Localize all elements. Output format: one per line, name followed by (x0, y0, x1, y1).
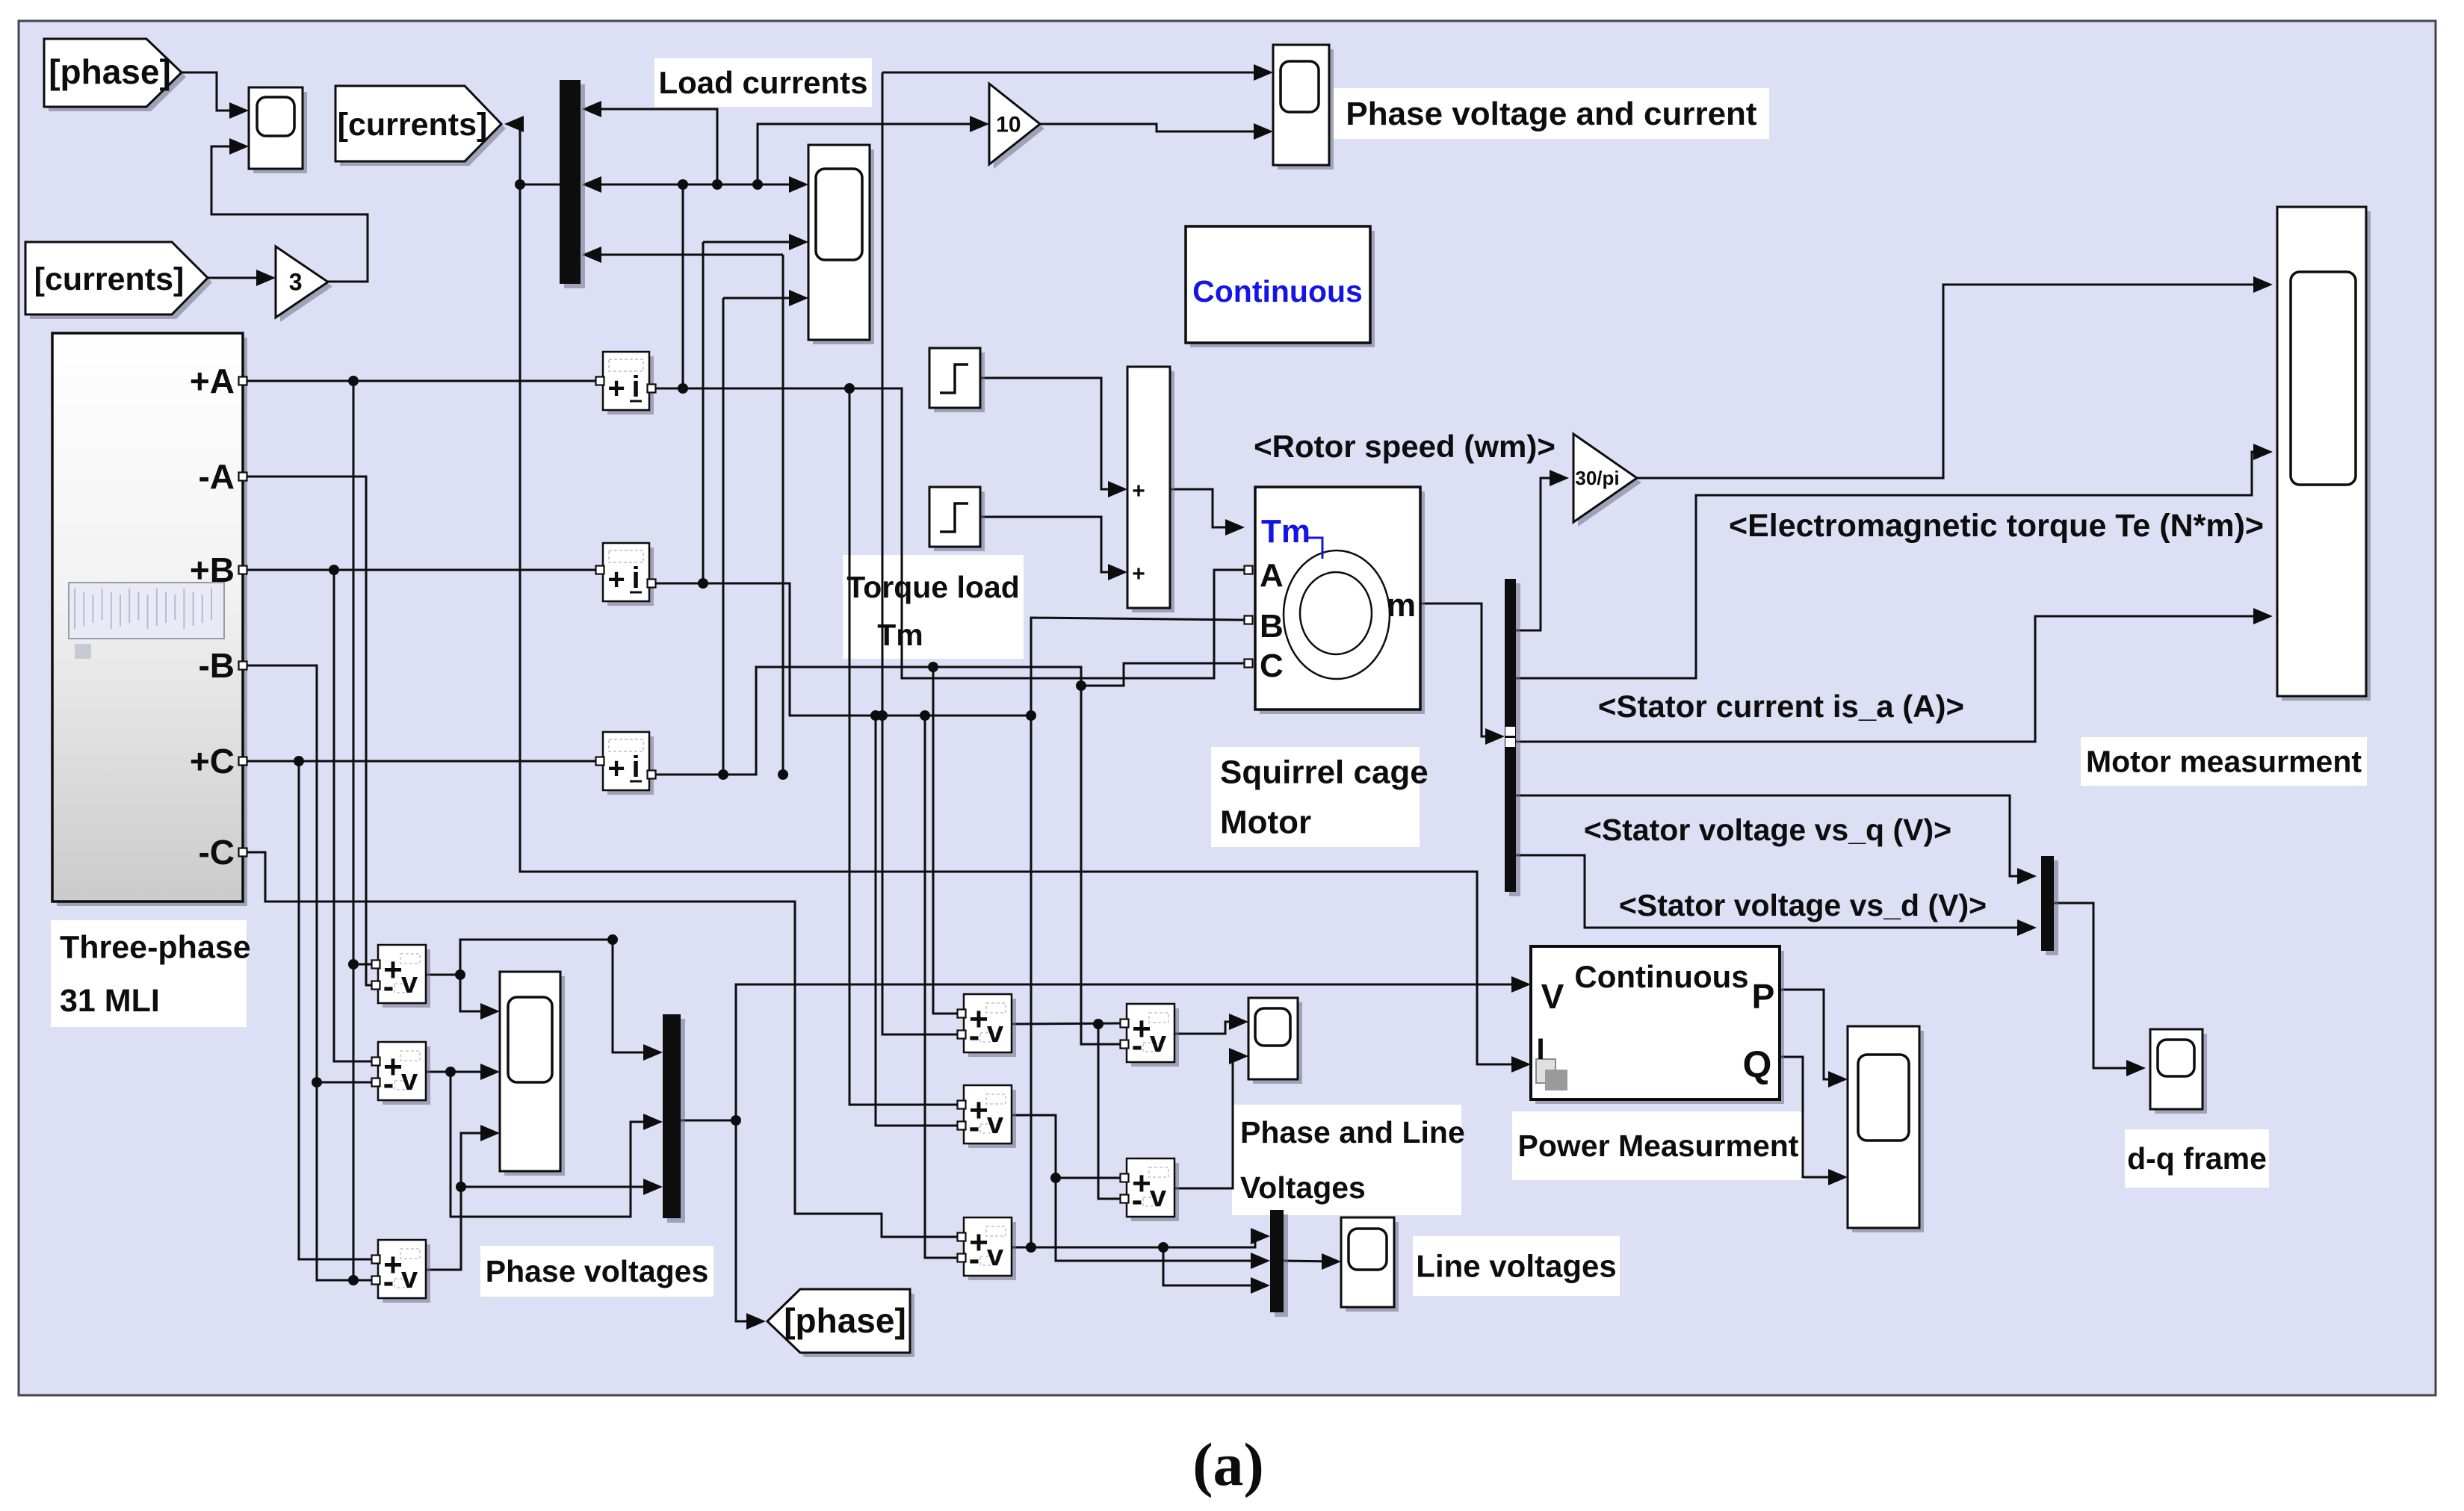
svg-text:<Stator voltage vs_q (V)>: <Stator voltage vs_q (V)> (1584, 813, 1951, 847)
svg-text:<Electromagnetic torque Te (N*: <Electromagnetic torque Te (N*m)> (1729, 508, 2264, 544)
svg-text:Q: Q (1743, 1043, 1772, 1085)
svg-text:-: - (383, 1263, 394, 1300)
svg-text:d-q frame: d-q frame (2127, 1141, 2267, 1176)
svg-text:Tm: Tm (1261, 513, 1310, 550)
svg-text:-A: -A (198, 457, 235, 496)
svg-text:[currents]: [currents] (338, 107, 488, 143)
svg-text:-: - (1132, 1182, 1143, 1218)
svg-text:v: v (401, 1262, 418, 1294)
svg-text:Continuous: Continuous (1574, 959, 1748, 994)
svg-text:+C: +C (190, 742, 235, 781)
svg-text:Load currents: Load currents (658, 65, 867, 100)
svg-text:Power Measurment: Power Measurment (1518, 1129, 1799, 1163)
svg-text:<Rotor speed (wm)>: <Rotor speed (wm)> (1254, 429, 1556, 464)
svg-text:v: v (1150, 1026, 1167, 1058)
svg-text:+: + (607, 752, 625, 785)
svg-text:(a): (a) (1192, 1430, 1264, 1498)
svg-text:+: + (1132, 562, 1145, 586)
svg-text:Voltages: Voltages (1240, 1170, 1366, 1205)
svg-text:Tm: Tm (877, 618, 923, 652)
svg-text:Continuous: Continuous (1192, 274, 1363, 308)
svg-text:P: P (1752, 977, 1775, 1016)
svg-text:-: - (383, 968, 394, 1005)
svg-text:v: v (987, 1107, 1004, 1140)
svg-text:v: v (1150, 1180, 1167, 1213)
svg-text:v: v (987, 1016, 1004, 1049)
svg-text:30/pi: 30/pi (1575, 467, 1619, 489)
svg-text:i: i (631, 370, 640, 403)
svg-text:i: i (631, 562, 640, 595)
svg-text:3: 3 (289, 269, 303, 296)
svg-text:+: + (607, 372, 625, 405)
svg-text:Three-phase: Three-phase (60, 929, 251, 965)
svg-text:Phase voltage and current: Phase voltage and current (1346, 96, 1757, 132)
svg-text:+A: +A (190, 362, 235, 400)
svg-text:Torque load: Torque load (846, 570, 1020, 604)
svg-text:A: A (1260, 557, 1284, 594)
svg-text:-: - (969, 1017, 980, 1054)
svg-text:I: I (1536, 1033, 1544, 1066)
svg-text:-B: -B (198, 646, 235, 685)
svg-text:-: - (969, 1108, 980, 1145)
svg-text:V: V (1541, 977, 1564, 1016)
svg-text:[phase]: [phase] (49, 52, 171, 91)
svg-text:C: C (1260, 648, 1284, 684)
svg-text:Motor: Motor (1220, 804, 1311, 840)
svg-text:31 MLI: 31 MLI (60, 983, 160, 1019)
svg-text:+B: +B (190, 550, 235, 589)
svg-text:i: i (631, 751, 640, 784)
svg-text:m: m (1387, 587, 1416, 624)
svg-text:<Stator current is_a (A)>: <Stator current is_a (A)> (1598, 689, 1964, 724)
svg-text:Phase voltages: Phase voltages (486, 1254, 709, 1288)
svg-text:-C: -C (198, 833, 235, 872)
svg-text:B: B (1260, 608, 1284, 645)
svg-text:10: 10 (996, 113, 1021, 137)
svg-text:Squirrel cage: Squirrel cage (1220, 754, 1428, 790)
svg-text:+: + (1132, 479, 1145, 503)
svg-text:+: + (607, 563, 625, 596)
svg-text:-: - (969, 1241, 980, 1277)
svg-text:[currents]: [currents] (34, 261, 185, 297)
svg-text:v: v (987, 1239, 1004, 1272)
svg-text:Line voltages: Line voltages (1416, 1248, 1616, 1283)
svg-text:[phase]: [phase] (784, 1301, 906, 1340)
svg-text:Phase and Line: Phase and Line (1240, 1115, 1465, 1149)
svg-text:-: - (383, 1065, 394, 1102)
svg-text:v: v (401, 967, 418, 999)
svg-text:Motor measurment: Motor measurment (2086, 744, 2362, 778)
svg-text:v: v (401, 1064, 418, 1096)
svg-text:-: - (1132, 1027, 1143, 1064)
svg-text:<Stator voltage vs_d (V)>: <Stator voltage vs_d (V)> (1619, 888, 1987, 922)
